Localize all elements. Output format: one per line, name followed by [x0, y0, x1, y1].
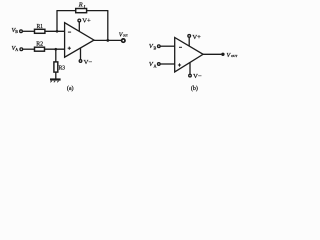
plus sign U2 — [178, 64, 181, 66]
ground — [50, 78, 61, 80]
V+ terminal (b) — [188, 35, 191, 38]
wire V- stub (a) — [80, 48, 82, 60]
node VB (a) — [12, 27, 19, 34]
svg-text:(a): (a) — [67, 85, 74, 92]
svg-text:R: R — [78, 1, 83, 8]
wire V- stub (b) — [189, 62, 191, 74]
node VA (b) — [149, 61, 157, 68]
wire VA to R2 — [23, 48, 35, 50]
wire feedback top left — [56, 10, 75, 12]
caption (a) — [67, 85, 74, 92]
terminal VOUT (b) — [221, 53, 224, 56]
wire output (b) — [203, 53, 221, 55]
resistor R3 — [54, 62, 58, 72]
wire VB to R1 — [23, 30, 35, 32]
svg-text:R1: R1 — [37, 23, 43, 30]
svg-text:B: B — [15, 29, 18, 34]
caption (b) — [191, 85, 198, 92]
V+ terminal (a) — [78, 19, 81, 22]
label V+ (b) — [192, 34, 201, 41]
label V- (b) — [193, 73, 202, 80]
label VOUT (b) — [227, 53, 239, 59]
wire R1 to op-amp minus input — [45, 30, 65, 32]
label V+ (a) — [82, 18, 91, 25]
terminal VB (a) — [20, 30, 23, 33]
label VOUT (a) — [119, 32, 129, 38]
svg-text:A: A — [154, 63, 157, 68]
V- terminal (a) — [79, 60, 82, 63]
svg-text:V−: V− — [84, 59, 93, 66]
resistor R2 — [35, 47, 45, 51]
label V- (a) — [84, 59, 93, 66]
wire output (a) — [94, 39, 121, 41]
resistor R1 — [35, 29, 45, 33]
resistor RF — [76, 9, 87, 13]
svg-text:OUT: OUT — [231, 54, 238, 58]
plus sign U1 — [68, 47, 71, 49]
wire feedback top right — [87, 10, 109, 12]
wire VA to plus input (b) — [160, 63, 175, 65]
wire V+ stub (b) — [188, 37, 190, 46]
minus sign U2 — [179, 46, 182, 48]
node VB (b) — [149, 43, 157, 50]
svg-text:V−: V− — [193, 73, 202, 80]
op-amp U2 — [175, 38, 203, 72]
svg-text:R3: R3 — [59, 65, 65, 72]
op-amp U1 — [65, 23, 94, 58]
svg-text:R2: R2 — [36, 41, 43, 48]
wire down to R3 — [55, 49, 57, 62]
wire feedback up — [56, 11, 58, 32]
svg-text:(b): (b) — [191, 85, 198, 92]
svg-text:V+: V+ — [82, 18, 91, 25]
V- terminal (b) — [189, 74, 192, 77]
node VA (a) — [12, 45, 19, 52]
wire feedback down to output — [107, 11, 109, 41]
wire VB to minus input (b) — [160, 45, 175, 47]
terminal VA (b) — [158, 63, 161, 66]
svg-text:V+: V+ — [192, 34, 201, 41]
junction output feedback — [106, 39, 109, 42]
junction minus node — [56, 30, 59, 33]
junction plus node — [54, 48, 57, 51]
wire V+ stub (a) — [78, 22, 80, 32]
terminal VA (a) — [20, 48, 23, 51]
svg-text:OUT: OUT — [123, 34, 128, 38]
wire R3 to ground — [55, 72, 57, 79]
svg-text:B: B — [154, 45, 157, 50]
terminal VB (b) — [158, 45, 161, 48]
wire R2 to op-amp plus input — [45, 48, 65, 50]
svg-text:A: A — [15, 47, 18, 52]
minus sign U1 — [68, 31, 71, 33]
terminal VOUT (a) — [122, 39, 125, 42]
